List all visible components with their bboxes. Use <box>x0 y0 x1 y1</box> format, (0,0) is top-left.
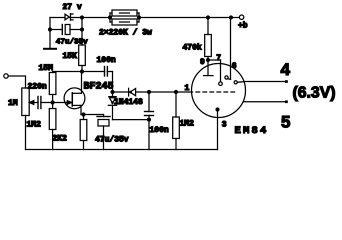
diode D2 1N4148 <box>129 88 136 96</box>
wire top rail right <box>139 17 239 19</box>
potentiometer P1 1M <box>22 88 38 150</box>
terminal pin 4 dot <box>285 80 288 83</box>
junction source <box>81 112 85 116</box>
anode plate pin9 <box>204 60 214 76</box>
ground <box>44 48 56 50</box>
svg-text:(6.3V): (6.3V) <box>293 84 336 101</box>
svg-text:1N4148: 1N4148 <box>114 98 143 107</box>
junction 470k tap <box>206 15 210 19</box>
svg-text:3: 3 <box>222 121 227 130</box>
junction <box>48 27 52 31</box>
junction <box>137 15 141 19</box>
capacitor C5 100n <box>145 92 154 150</box>
zener diode D1 27v <box>65 14 73 21</box>
wire diode to tube pin1 <box>136 91 193 93</box>
svg-text:15K: 15K <box>63 52 78 61</box>
wire top rail left of zener <box>50 17 65 19</box>
wire to diode <box>113 91 129 93</box>
junction detector node <box>110 90 114 94</box>
junction <box>108 15 112 19</box>
svg-text:47u/35v: 47u/35v <box>95 136 129 145</box>
terminal pin 5 dot <box>285 100 288 103</box>
junction <box>80 27 84 31</box>
junction <box>147 118 151 122</box>
tube U1 EM84 envelope <box>192 64 246 118</box>
grid dashed line pin1 <box>196 91 237 93</box>
wire left column down to ground <box>49 18 51 48</box>
svg-text:+b: +b <box>238 22 248 31</box>
wire strap 9-7 <box>208 59 221 61</box>
svg-text:470k: 470k <box>183 44 202 53</box>
grid pin7 electrode <box>219 60 223 85</box>
svg-text:1M: 1M <box>8 99 18 108</box>
resistor pair 2x220K/3w <box>110 10 139 25</box>
junction drain/15K <box>80 69 84 73</box>
svg-text:15M: 15M <box>39 64 54 73</box>
junction pin6 tap <box>229 15 233 19</box>
svg-text:4: 4 <box>281 60 291 79</box>
svg-text:1: 1 <box>185 84 190 93</box>
wire column x81 down to 15K <box>81 18 83 46</box>
svg-text:100n: 100n <box>150 126 169 135</box>
svg-text:2K2: 2K2 <box>53 135 68 144</box>
wire input <box>8 76 25 88</box>
pin 6 wire <box>230 18 232 80</box>
svg-text:220n: 220n <box>28 83 47 92</box>
svg-text:2×220K / 3w: 2×220K / 3w <box>99 29 152 38</box>
svg-text:27 v: 27 v <box>63 3 82 12</box>
svg-text:1M2: 1M2 <box>27 121 42 130</box>
screen electrode circle B <box>234 81 244 84</box>
cathode pin3 <box>215 107 219 149</box>
transistor Q1 BF245 <box>64 72 85 115</box>
svg-text:5: 5 <box>281 113 290 132</box>
junction <box>80 15 84 19</box>
resistor R6 1M2 <box>173 92 180 150</box>
resistor R2 15K <box>79 45 86 66</box>
capacitor C3 220n <box>38 97 71 109</box>
capacitor C2 100n coupling <box>105 67 113 93</box>
svg-text:EM84: EM84 <box>235 125 269 137</box>
junction pin9 node <box>206 58 210 62</box>
terminal +b <box>239 15 243 19</box>
diode D3 vertical <box>108 92 149 120</box>
resistor R4 1M2 <box>49 103 56 150</box>
wire pin 5 heater <box>244 101 287 103</box>
wire source row <box>81 114 104 116</box>
svg-text:6: 6 <box>232 62 237 71</box>
junction gate node <box>51 100 55 104</box>
wire drain row <box>53 71 105 73</box>
capacitor C4 47u/35v bypass <box>97 115 110 150</box>
svg-text:BF245: BF245 <box>84 81 114 92</box>
junction <box>147 90 151 94</box>
svg-text:100n: 100n <box>97 56 116 65</box>
wire 15K to drain node <box>81 66 83 72</box>
resistor R5 2K2 <box>80 115 87 150</box>
svg-text:1M2: 1M2 <box>180 120 195 129</box>
terminal input <box>4 74 8 78</box>
screen electrode circle A <box>225 76 231 80</box>
resistor R7 470k <box>205 18 212 61</box>
wire zener to node A <box>70 17 110 19</box>
junction pin1 node <box>174 90 178 94</box>
wire pin 4 heater <box>244 81 286 83</box>
svg-text:9: 9 <box>200 58 205 67</box>
resistor R3 15M <box>49 72 56 103</box>
wire ground rail <box>26 149 218 151</box>
capacitor C1 47u/35v <box>50 25 82 35</box>
